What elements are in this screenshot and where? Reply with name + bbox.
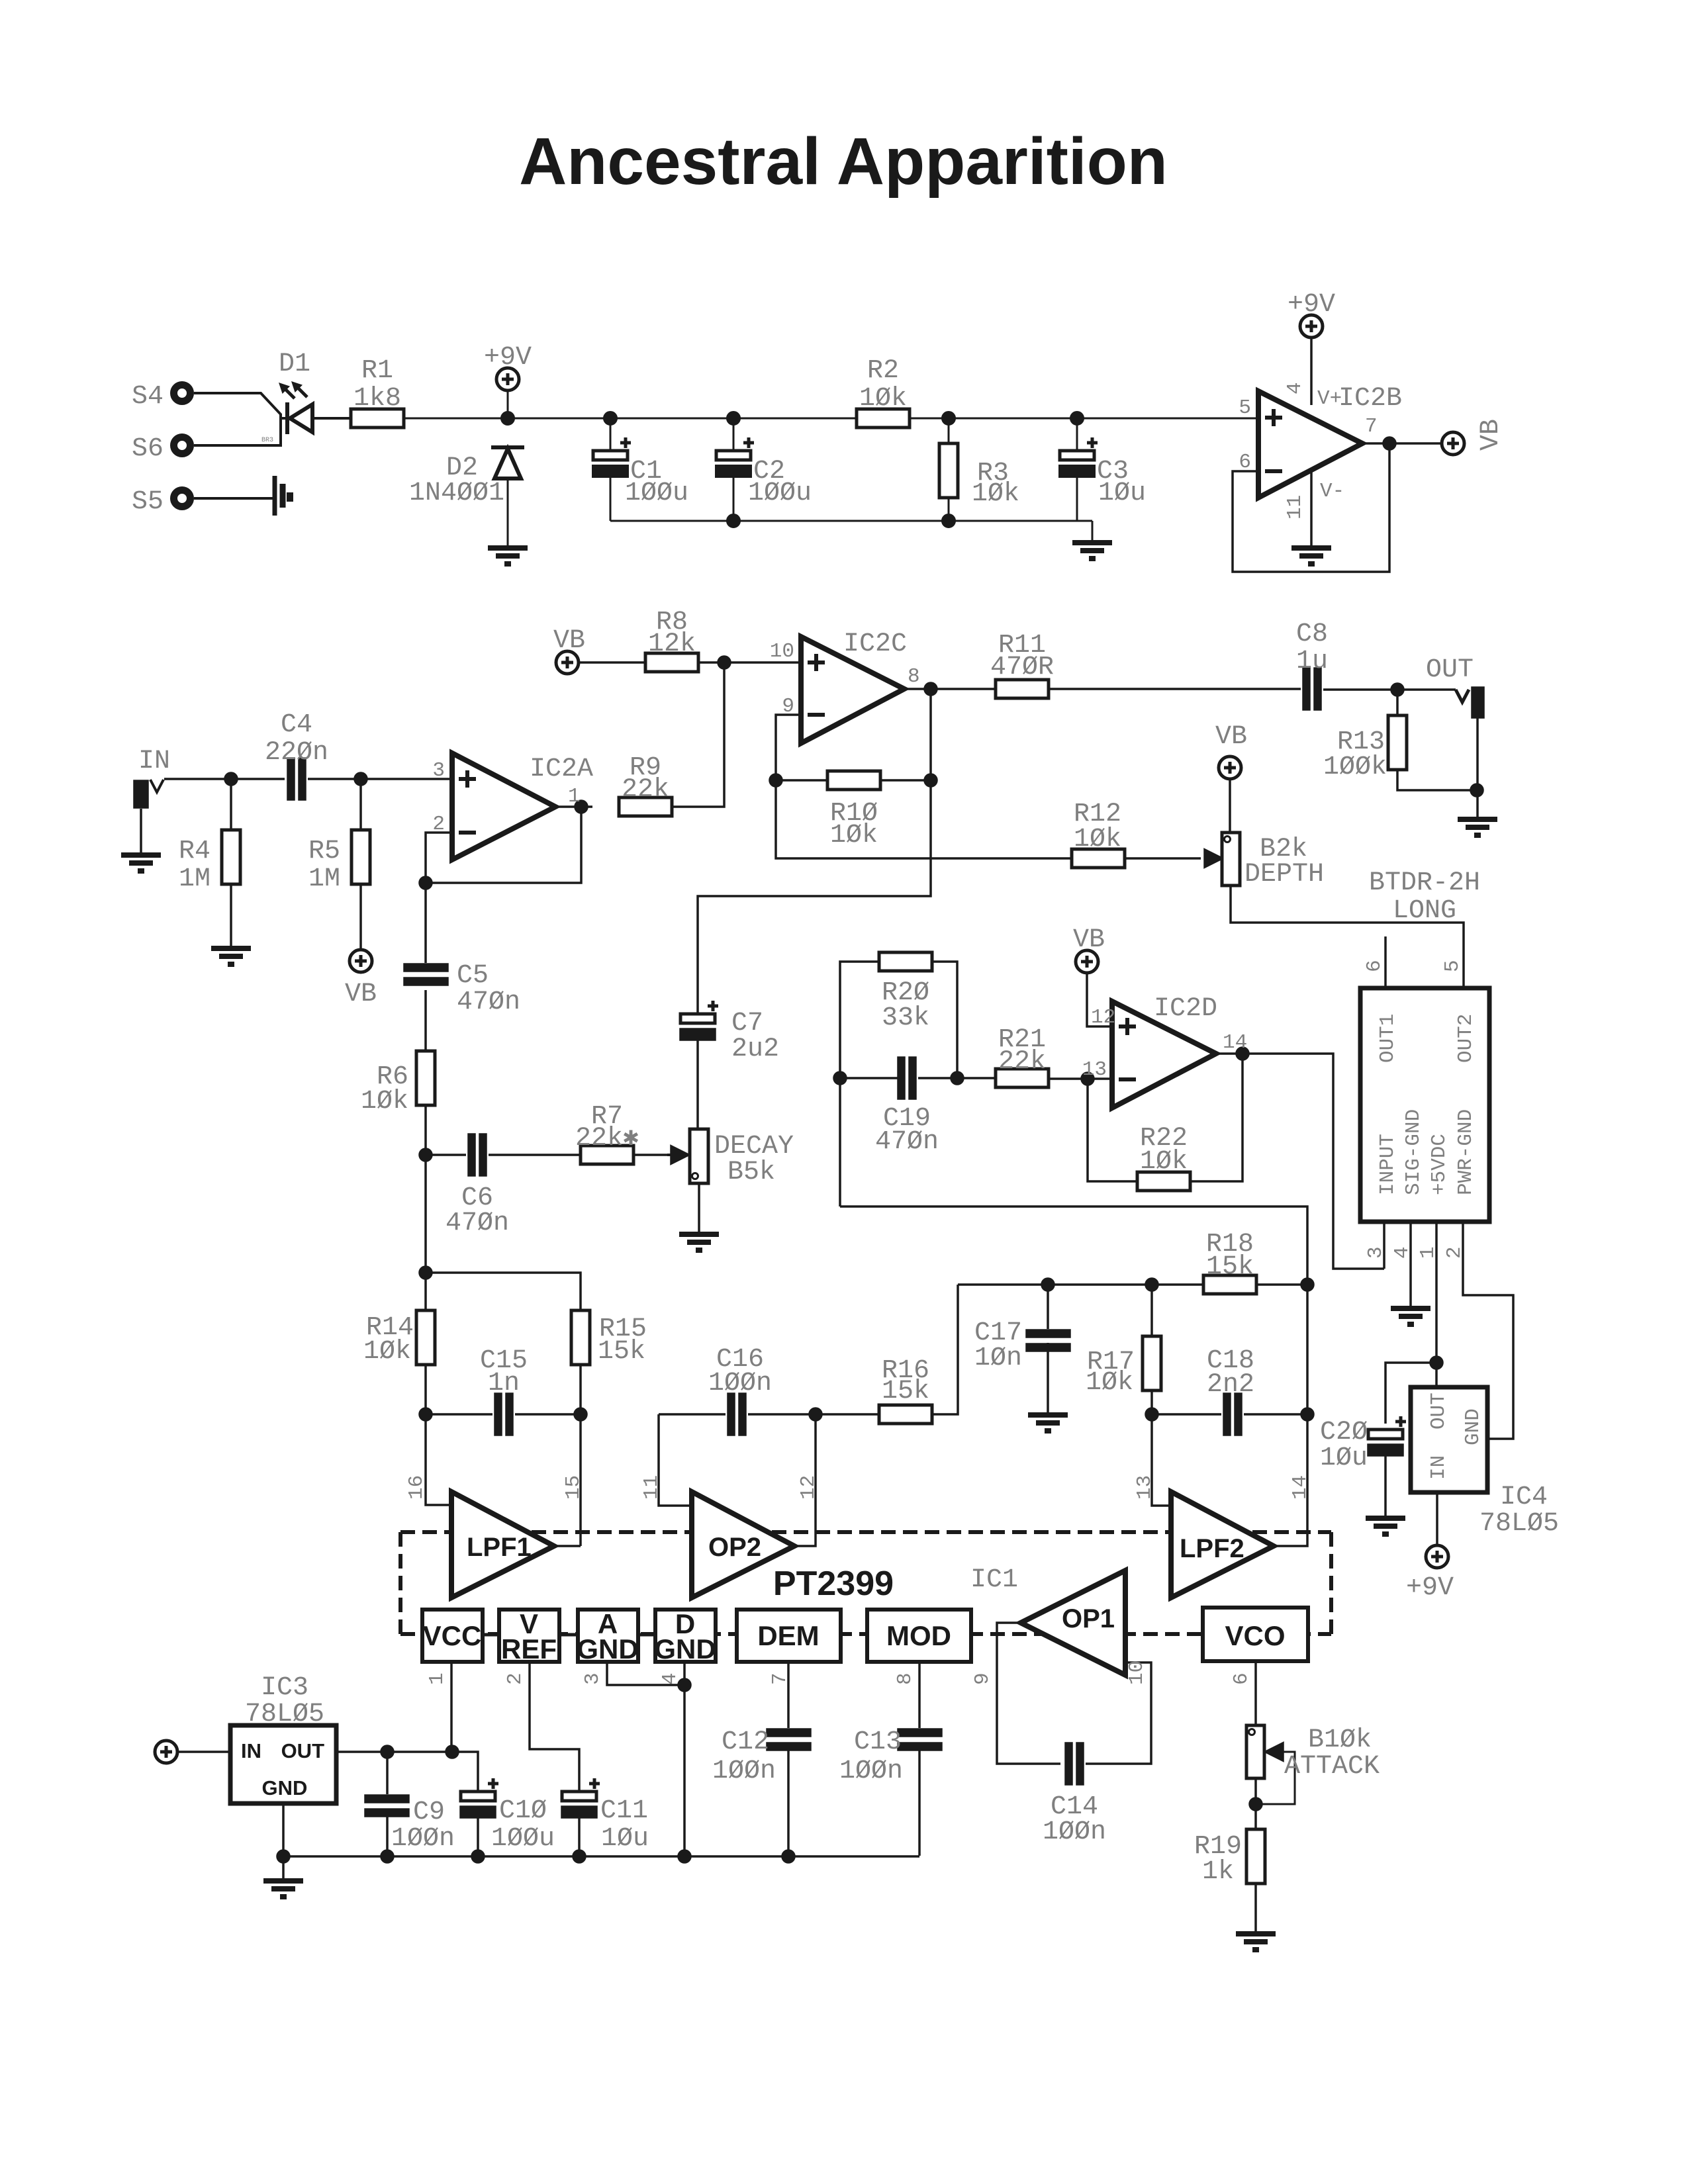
wire AGND-DGND (638, 1633, 655, 1637)
svg-text:GND: GND (654, 1633, 716, 1664)
wire R12 to wiper (1125, 857, 1201, 860)
svg-text:LONG: LONG (1393, 896, 1456, 926)
pad S6 (174, 437, 191, 454)
svg-text:47Øn: 47Øn (457, 987, 520, 1017)
wire R11 to C8 (1049, 688, 1301, 690)
wire ground stub bottom rail (1092, 521, 1094, 540)
node R10 left (770, 774, 782, 786)
wire pot bottom to ground (698, 1183, 700, 1232)
svg-text:1Øu: 1Øu (1098, 478, 1146, 508)
wire C13 bottom (918, 1750, 921, 1856)
wire IC2D out (1216, 1054, 1384, 1269)
block AGND (578, 1610, 638, 1662)
svg-text:LPF2: LPF2 (1180, 1534, 1244, 1563)
resistor R14 (416, 1310, 435, 1365)
supply VB at R8 (556, 651, 645, 674)
wire R7 to DECAY wiper (633, 1154, 670, 1156)
wire C8 to OUT (1323, 688, 1456, 691)
svg-text:C9: C9 (413, 1797, 445, 1827)
node C19 left (834, 1072, 846, 1084)
svg-text:1Øk: 1Øk (1086, 1368, 1133, 1398)
node C15 right (575, 1408, 586, 1420)
svg-text:GND: GND (577, 1633, 638, 1664)
ground C20 (1366, 1518, 1405, 1534)
resistor R20 (879, 952, 932, 971)
node C18 left (1146, 1408, 1158, 1420)
node pin4 rail (679, 1850, 690, 1862)
svg-text:1ØØn: 1ØØn (1043, 1817, 1106, 1847)
wire top rail R18 (958, 1283, 1307, 1286)
wire C2 stub (733, 418, 735, 521)
pin 4 stub SIG-GND (1409, 1222, 1412, 1306)
node R3 top (943, 412, 955, 424)
svg-text:14: 14 (1223, 1031, 1247, 1054)
regulator IC4 78L05 (1411, 1387, 1487, 1492)
node R13 top (1391, 684, 1403, 696)
svg-text:OUT1: OUT1 (1376, 1014, 1399, 1063)
supply +9V IC2B pin4 (1300, 315, 1323, 405)
wire C4 to IC2A (308, 778, 452, 780)
wire IC2B feedback (1233, 443, 1389, 572)
wire pin13 LPF2 (1152, 1414, 1171, 1506)
svg-text:LPF1: LPF1 (467, 1533, 532, 1562)
wire C16 row (659, 1413, 816, 1416)
svg-text:22k: 22k (998, 1047, 1046, 1077)
svg-text:22k✱: 22k✱ (575, 1124, 639, 1154)
svg-text:6: 6 (1239, 451, 1251, 474)
node R4 top (225, 773, 237, 785)
svg-text:C11: C11 (600, 1796, 648, 1826)
svg-text:C1Ø: C1Ø (499, 1796, 547, 1826)
svg-text:IC1: IC1 (970, 1565, 1018, 1595)
wire C19 node down to R18 rail (840, 1206, 1307, 1285)
wire C9 stubs (386, 1752, 389, 1856)
svg-text:1M: 1M (179, 864, 211, 894)
svg-text:R4: R4 (179, 837, 211, 866)
svg-text:B1Øk: B1Øk (1308, 1725, 1372, 1755)
capacitor C2 100u (716, 437, 754, 477)
SEC-IC2C (556, 637, 1497, 1015)
node C16 right (810, 1408, 821, 1420)
resistor R13 (1388, 715, 1407, 770)
wire pin14 LPF2 (1274, 1285, 1307, 1546)
capacitor C5 470n (404, 964, 447, 985)
resistor R19 (1246, 1829, 1265, 1884)
svg-text:V-: V- (1320, 480, 1344, 503)
svg-text:5: 5 (1441, 960, 1464, 972)
node C12 rail (782, 1850, 794, 1862)
capacitor C20 10u (1368, 1416, 1406, 1455)
resistor R6 (416, 1051, 435, 1105)
svg-text:1Øk: 1Øk (859, 384, 907, 414)
wire OUT jack sleeve down (1476, 717, 1479, 817)
regulator IC3 78L05 (230, 1725, 336, 1803)
svg-text:1Øk: 1Øk (972, 479, 1019, 509)
svg-text:ATTACK: ATTACK (1284, 1752, 1380, 1782)
svg-text:3: 3 (432, 759, 445, 782)
SEC-DECAY (404, 883, 719, 1250)
wire C14 to pin10 (1086, 1662, 1151, 1764)
svg-text:15k: 15k (598, 1337, 645, 1367)
svg-text:3: 3 (581, 1672, 604, 1685)
svg-text:1k8: 1k8 (353, 384, 401, 414)
svg-text:1k: 1k (1202, 1857, 1234, 1887)
supply +9V (D2 node) (496, 368, 519, 418)
supply +9V IC3 (155, 1741, 230, 1763)
svg-text:VCC: VCC (423, 1620, 482, 1651)
svg-text:2: 2 (1443, 1246, 1466, 1259)
node C9 bottom (381, 1850, 393, 1862)
pot DEPTH B2k (1072, 756, 1464, 988)
pot ATTACK B10k (1246, 1725, 1295, 1804)
wire C12 bottom (787, 1750, 790, 1856)
svg-text:OP2: OP2 (708, 1533, 761, 1562)
wire IC2B output (1362, 442, 1441, 445)
node +5V (1430, 1357, 1442, 1369)
pad S5 (174, 490, 191, 507)
svg-text:R5: R5 (308, 837, 340, 866)
wire R17 (1150, 1285, 1153, 1414)
block OP1 (1021, 1570, 1125, 1675)
resistor R5 (352, 830, 370, 884)
wire C5 chain (424, 883, 427, 1155)
svg-text:1Øu: 1Øu (1320, 1443, 1368, 1473)
resistor R9 (619, 797, 672, 816)
node IC2B out (1383, 437, 1395, 449)
svg-text:GND: GND (262, 1776, 308, 1799)
svg-text:10: 10 (1125, 1661, 1149, 1685)
wire IC3 GND (282, 1803, 285, 1856)
wire pot to R19 (1254, 1778, 1257, 1829)
capacitor C11 10u (562, 1778, 600, 1817)
node R3 bottom (943, 515, 955, 527)
node C15 left (420, 1408, 432, 1420)
pin 8 stub MOD (918, 1662, 921, 1728)
node IC2A out (575, 801, 587, 813)
resistor R18 (1203, 1275, 1256, 1294)
svg-text:4: 4 (1391, 1246, 1414, 1259)
wire gnd stub (282, 1856, 285, 1878)
wire D1 to R1 (312, 417, 351, 420)
pin 1 stub +5VDC (1435, 1222, 1438, 1387)
svg-text:1ØØn: 1ØØn (712, 1756, 776, 1786)
SEC-FILT (416, 1155, 1313, 1546)
svg-text:8: 8 (908, 665, 920, 688)
SEC-TOP (174, 368, 1259, 564)
resistor R4 (222, 830, 240, 884)
wire R8 to IC2C pin10 (698, 661, 801, 664)
svg-text:VB: VB (345, 979, 377, 1009)
svg-text:S5: S5 (132, 487, 164, 517)
node +9V rail/D2 (502, 412, 514, 424)
svg-text:3: 3 (1364, 1246, 1387, 1259)
wire LPF1 out pin15 (554, 1545, 581, 1547)
svg-text:15k: 15k (1206, 1252, 1254, 1282)
svg-text:IN: IN (1427, 1455, 1450, 1480)
svg-text:1u: 1u (1296, 647, 1328, 676)
node pin1 rail (446, 1746, 458, 1758)
svg-text:VB: VB (1476, 419, 1506, 451)
node OUT ground (1471, 784, 1483, 796)
svg-text:2u2: 2u2 (731, 1034, 779, 1064)
supply VB IC2D pin12 (1076, 950, 1112, 1026)
wire VREF-AGND (559, 1633, 578, 1637)
resistor R1 (351, 409, 404, 428)
ground SIG-GND (1391, 1308, 1430, 1324)
svg-text:C12: C12 (722, 1727, 769, 1757)
svg-text:IC4: IC4 (1500, 1482, 1548, 1512)
svg-text:47Øn: 47Øn (445, 1208, 509, 1238)
svg-text:9: 9 (782, 695, 794, 718)
wire R3 stubs (948, 418, 950, 521)
svg-text:1ØØn: 1ØØn (708, 1369, 772, 1398)
resistor R16 (879, 1405, 932, 1424)
wire IN to C4 (164, 778, 285, 780)
capacitor C19 470n (898, 1058, 915, 1099)
wire R13 stubs (1397, 690, 1477, 790)
block VCO right (1203, 1608, 1308, 1661)
svg-text:1ØØn: 1ØØn (839, 1756, 903, 1786)
wire OP1 pin9/C14 loop (997, 1623, 1060, 1764)
SEC-IC2D (834, 950, 1384, 1285)
capacitor C12 100n (767, 1729, 810, 1750)
svg-text:78LØ5: 78LØ5 (1479, 1509, 1559, 1539)
svg-text:1Øn: 1Øn (974, 1343, 1022, 1373)
wire pot top to C7 (696, 1038, 699, 1129)
capacitor C18 2n2 (1224, 1394, 1241, 1435)
svg-text:OUT: OUT (1426, 655, 1474, 685)
capacitor C8 1u (1303, 668, 1321, 709)
wire IC4 IN to +9V (1436, 1492, 1438, 1545)
svg-text:IC2D: IC2D (1154, 994, 1217, 1024)
LED D1 (279, 381, 312, 434)
wire R10 left (776, 779, 827, 782)
svg-text:7: 7 (769, 1672, 792, 1685)
wire C16 node to R16 (816, 1413, 879, 1416)
svg-text:IN: IN (138, 747, 170, 776)
capacitor C17 10n (1027, 1330, 1070, 1351)
dashed box IC1 PT2399 (400, 1532, 1331, 1634)
wire C15 row (426, 1413, 581, 1416)
svg-text:+5VDC: +5VDC (1428, 1134, 1451, 1195)
svg-text:22Øn: 22Øn (265, 738, 328, 768)
wire R19 ground (1254, 1884, 1257, 1931)
svg-text:2: 2 (504, 1672, 527, 1685)
svg-text:1ØØu: 1ØØu (491, 1824, 555, 1854)
wire R21 to pin13 (1049, 1077, 1112, 1080)
node C2 top (727, 412, 739, 424)
svg-text:R2: R2 (867, 356, 899, 386)
svg-text:OUT2: OUT2 (1454, 1014, 1477, 1063)
pad S4 (174, 385, 191, 402)
ground under D2 (488, 548, 528, 564)
wire VCC-VREF (483, 1633, 499, 1637)
pin 3 stub INPUT (1383, 1222, 1385, 1269)
svg-text:DEPTH: DEPTH (1244, 860, 1324, 889)
svg-text:1M: 1M (308, 864, 340, 894)
wire C10 bottom (477, 1817, 479, 1856)
block OP2 (692, 1492, 794, 1598)
capacitor C7 2u2 (680, 1001, 718, 1040)
ground IC2B (1291, 548, 1331, 564)
node C5 top (420, 877, 432, 889)
wire IC2C pin9 (776, 715, 801, 780)
pin 6 stub VCO (1254, 1661, 1257, 1725)
capacitor C4 220n (288, 758, 305, 799)
wire R22 left (1088, 1079, 1137, 1181)
resistor R2 (857, 409, 910, 428)
node C3 top (1071, 412, 1083, 424)
block MOD (867, 1610, 971, 1662)
resistor R11 (996, 680, 1049, 698)
node pin14 (1237, 1048, 1248, 1060)
SEC-IC3 (155, 1725, 919, 1897)
ground IC3 (263, 1881, 303, 1897)
wire IC2A out (555, 805, 592, 808)
svg-text:1ØØu: 1ØØu (625, 478, 688, 508)
svg-text:78LØ5: 78LØ5 (245, 1700, 324, 1729)
wire C3 stub (1076, 418, 1078, 521)
svg-text:1n: 1n (488, 1369, 520, 1398)
svg-text:SIG-GND: SIG-GND (1402, 1109, 1425, 1195)
pin 3 stub AGND (607, 1662, 684, 1685)
svg-text:+9V: +9V (1406, 1573, 1454, 1603)
capacitor C16 100n (728, 1394, 745, 1435)
svg-text:2n2: 2n2 (1207, 1370, 1254, 1400)
ground C17 (1028, 1415, 1068, 1431)
wire +5V to C20 (1385, 1363, 1436, 1424)
op-amp IC2B (1258, 391, 1362, 498)
svg-text:1ØØn: 1ØØn (391, 1824, 455, 1854)
pot body DEPTH (1222, 833, 1240, 886)
pin 2 stub VREF (530, 1662, 579, 1792)
capacitor C9 100n (365, 1796, 408, 1816)
ground R4 (211, 948, 251, 964)
resistor R22 (1137, 1172, 1190, 1191)
wire C6 left (426, 1154, 466, 1156)
capacitor C14 100n (1066, 1743, 1083, 1784)
svg-text:15: 15 (562, 1475, 585, 1500)
node R5 top (355, 773, 367, 785)
svg-text:S4: S4 (132, 382, 164, 412)
wire R9 to R8 node (672, 662, 724, 807)
svg-text:1Øu: 1Øu (601, 1824, 649, 1854)
svg-text:6: 6 (1363, 960, 1386, 972)
svg-text:B5k: B5k (727, 1158, 775, 1187)
resistor R8 (645, 653, 698, 672)
svg-text:10: 10 (770, 640, 794, 663)
wire C6 to R7 (489, 1154, 581, 1156)
wire R20 right leg (932, 962, 957, 1078)
wire pin12 (794, 1414, 816, 1546)
wire IC2C out (904, 688, 996, 690)
supply VB under R5 (350, 950, 372, 972)
svg-text:47Øn: 47Øn (875, 1127, 939, 1157)
wire R16 to top rail (932, 1285, 958, 1414)
node pin13 (1082, 1073, 1094, 1085)
wire IN jack ground (140, 809, 142, 852)
svg-text:12: 12 (797, 1475, 820, 1500)
wire R15 to pin15 (579, 1365, 582, 1546)
node IC2C out (925, 683, 937, 695)
svg-text:R1: R1 (361, 356, 393, 386)
node C17 top (1042, 1279, 1054, 1291)
svg-text:IC2A: IC2A (530, 754, 593, 784)
svg-text:1ØØk: 1ØØk (1323, 752, 1387, 782)
svg-text:11: 11 (640, 1475, 663, 1500)
svg-text:1Øk: 1Øk (361, 1087, 408, 1116)
svg-text:PT2399: PT2399 (773, 1565, 894, 1603)
capacitor C10 100u (461, 1778, 498, 1817)
block DEM (737, 1610, 841, 1662)
reverb brick BTDR-2H (1360, 988, 1489, 1222)
node IC3 gnd rail (277, 1850, 289, 1862)
block LPF2 (1171, 1492, 1274, 1598)
wire out node down to C7 (698, 689, 931, 1015)
svg-text:9: 9 (971, 1672, 994, 1685)
svg-text:IN: IN (241, 1739, 261, 1762)
capacitor C6 470n (469, 1134, 486, 1175)
node R18 right (1301, 1279, 1313, 1291)
svg-text:13: 13 (1082, 1058, 1107, 1081)
pin 2 stub PWR-GND (1463, 1222, 1513, 1439)
pin 1 stub VCC (450, 1662, 453, 1751)
ground R19 (1236, 1934, 1276, 1950)
block DGND (655, 1610, 716, 1662)
svg-text:IC3: IC3 (261, 1673, 308, 1703)
svg-text:PWR-GND: PWR-GND (1454, 1109, 1477, 1195)
svg-text:MOD: MOD (886, 1620, 951, 1651)
jack OUT (1456, 688, 1483, 717)
SEC-IC2B (1233, 315, 1464, 572)
svg-text:8: 8 (894, 1672, 917, 1685)
ground DECAY (679, 1234, 719, 1250)
wire IC3 OUT rail (336, 1752, 478, 1792)
svg-text:1: 1 (1417, 1246, 1440, 1259)
svg-text:5: 5 (1239, 396, 1251, 420)
wire IC2A feedback (426, 807, 581, 883)
svg-text:22k: 22k (622, 775, 669, 805)
node ATTACK wiper (1250, 1798, 1262, 1810)
capacitor C1 100u (593, 437, 631, 477)
block VREF (499, 1610, 559, 1662)
svg-text:13: 13 (1133, 1475, 1156, 1500)
wire S6 to D1 (194, 418, 286, 445)
wire IC2B pin11 ground (1310, 471, 1313, 545)
pot DECAY B5k (667, 1129, 708, 1183)
wiper arrow DEPTH (1205, 850, 1222, 867)
wire C11 bottom (578, 1817, 581, 1856)
svg-text:IC2B: IC2B (1338, 384, 1402, 414)
wire R10-left to R12 (776, 780, 1072, 858)
node R10 right (925, 774, 937, 786)
resistor R12 (1072, 849, 1125, 868)
svg-text:12k: 12k (648, 629, 696, 659)
wire R22 right (1190, 1054, 1243, 1181)
capacitor C3 10u (1060, 437, 1098, 477)
node C11 bottom (573, 1850, 585, 1862)
svg-text:+9V: +9V (484, 343, 532, 373)
wire left column to pin16 (426, 1155, 451, 1505)
diode D2 1N4001 (491, 447, 524, 545)
SEC-BRICK (1360, 936, 1513, 1568)
svg-text:11: 11 (1284, 495, 1307, 520)
svg-text:S6: S6 (132, 434, 164, 464)
svg-text:1Øk: 1Øk (363, 1337, 411, 1367)
wire bottom rail C1-C3 (610, 520, 1092, 522)
node R15 wire top (420, 1267, 432, 1279)
svg-text:12: 12 (1091, 1006, 1115, 1029)
